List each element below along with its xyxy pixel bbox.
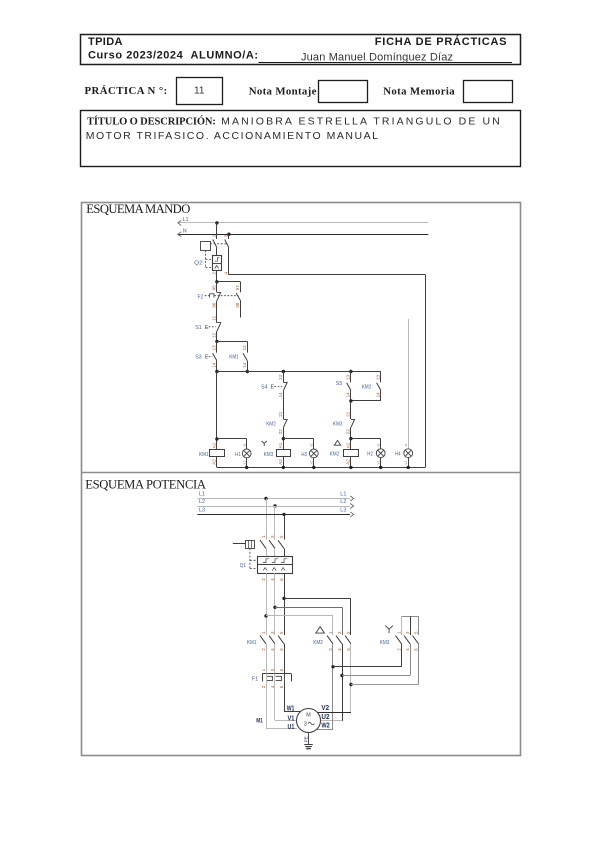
svg-text:V1: V1 (288, 713, 295, 722)
svg-text:x2: x2 (376, 461, 380, 465)
svg-text:12: 12 (212, 332, 217, 338)
svg-text:KM2: KM2 (266, 422, 276, 428)
svg-text:W2: W2 (321, 721, 329, 730)
svg-text:ESQUEMA MANDO: ESQUEMA MANDO (86, 202, 190, 216)
svg-text:13: 13 (242, 345, 247, 351)
svg-text:F2: F2 (198, 294, 204, 300)
svg-text:22: 22 (278, 429, 283, 435)
svg-text:97: 97 (235, 285, 240, 291)
svg-text:E: E (205, 355, 209, 361)
svg-text:H3: H3 (301, 452, 307, 458)
svg-text:H1: H1 (235, 452, 241, 458)
svg-text:KM1: KM1 (229, 355, 239, 361)
svg-text:x1: x1 (242, 443, 246, 447)
svg-text:U1: U1 (288, 722, 295, 731)
svg-text:11: 11 (212, 315, 217, 320)
svg-text:Curso 2023/2024 ALUMNO/A:: Curso 2023/2024 ALUMNO/A: (88, 50, 258, 62)
svg-text:S5: S5 (336, 381, 342, 387)
svg-text:Q1: Q1 (240, 563, 246, 569)
svg-text:L2: L2 (199, 499, 205, 505)
svg-text:H2: H2 (367, 452, 373, 458)
svg-text:L3: L3 (340, 507, 346, 513)
svg-text:x2: x2 (404, 461, 408, 465)
svg-text:13: 13 (376, 374, 381, 380)
svg-text:M1: M1 (256, 717, 263, 724)
svg-text:L2: L2 (340, 499, 346, 505)
svg-text:FICHA DE PRÁCTICAS: FICHA DE PRÁCTICAS (375, 35, 507, 48)
svg-text:L3: L3 (199, 507, 205, 513)
svg-text:S4: S4 (261, 384, 268, 390)
svg-text:A2: A2 (278, 459, 283, 465)
svg-text:ESQUEMA POTENCIA: ESQUEMA POTENCIA (85, 477, 206, 491)
svg-text:S3: S3 (195, 355, 201, 361)
svg-text:L1: L1 (340, 491, 346, 497)
svg-text:Nota Montaje: Nota Montaje (249, 85, 317, 97)
svg-text:14: 14 (346, 392, 351, 398)
svg-text:Q2: Q2 (194, 260, 203, 266)
svg-text:21: 21 (346, 411, 351, 417)
svg-text:KM3: KM3 (380, 640, 390, 646)
svg-text:KM2: KM2 (362, 385, 372, 391)
svg-text:TÍTULO O DESCRIPCIÓN:: TÍTULO O DESCRIPCIÓN: (87, 116, 216, 128)
svg-text:V2: V2 (321, 703, 329, 712)
svg-text:L1: L1 (183, 217, 189, 223)
svg-text:MOTOR TRIFASICO. ACCIONAMIENTO: MOTOR TRIFASICO. ACCIONAMIENTO MANUAL (86, 130, 378, 142)
svg-text:PE: PE (303, 736, 308, 742)
svg-text:13: 13 (346, 374, 351, 380)
svg-text:A2: A2 (346, 459, 351, 465)
svg-text:F1: F1 (252, 677, 258, 683)
svg-text:14: 14 (278, 392, 283, 398)
svg-text:PRÁCTICA N °:: PRÁCTICA N °: (85, 85, 168, 97)
svg-text:13: 13 (212, 345, 217, 351)
svg-text:14: 14 (376, 392, 381, 398)
svg-text:KM3: KM3 (333, 421, 343, 427)
svg-text:x1: x1 (309, 443, 313, 447)
svg-text:A1: A1 (212, 442, 217, 448)
svg-text:KM2: KM2 (330, 452, 340, 458)
svg-text:KM3: KM3 (264, 452, 274, 458)
svg-text:96: 96 (212, 302, 217, 308)
svg-text:14: 14 (242, 362, 247, 368)
svg-text:x2: x2 (242, 461, 246, 465)
svg-text:A1: A1 (346, 442, 351, 448)
svg-text:x1: x1 (404, 443, 408, 447)
svg-text:95: 95 (212, 285, 217, 291)
svg-text:21: 21 (278, 411, 283, 417)
svg-text:A2: A2 (212, 459, 217, 465)
svg-text:L1: L1 (199, 491, 205, 497)
svg-text:KM1: KM1 (199, 452, 209, 458)
svg-text:TPIDA: TPIDA (88, 36, 123, 48)
svg-text:Nota Memoria: Nota Memoria (383, 85, 455, 97)
svg-text:E: E (271, 384, 275, 390)
svg-text:A1: A1 (278, 442, 283, 448)
svg-text:x1: x1 (376, 443, 380, 447)
svg-text:M: M (306, 712, 311, 718)
svg-text:H4: H4 (395, 452, 401, 458)
svg-text:13: 13 (278, 374, 283, 380)
svg-text:N: N (183, 228, 187, 234)
svg-text:E: E (205, 325, 209, 331)
svg-text:Juan Manuel Domínguez Díaz: Juan Manuel Domínguez Díaz (301, 51, 453, 63)
svg-text:KM1: KM1 (247, 640, 257, 646)
svg-text:W1: W1 (287, 704, 295, 713)
svg-text:S1: S1 (195, 325, 201, 331)
svg-text:x2: x2 (309, 461, 313, 465)
svg-text:MANIOBRA ESTRELLA TRIANGULO DE: MANIOBRA ESTRELLA TRIANGULO DE UN (221, 116, 500, 128)
svg-text:98: 98 (235, 302, 240, 308)
svg-text:3: 3 (304, 721, 307, 727)
svg-text:14: 14 (212, 362, 217, 368)
svg-text:KM2: KM2 (313, 640, 323, 646)
svg-text:11: 11 (194, 85, 205, 96)
svg-text:22: 22 (346, 429, 351, 435)
